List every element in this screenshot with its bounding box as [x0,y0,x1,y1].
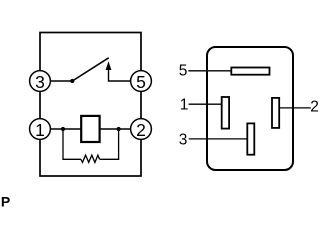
wire: coil to terminal 2 [99,128,131,130]
pin 5 slot [231,68,269,75]
relay coil L [81,116,99,142]
svg-text:5: 5 [136,72,146,92]
switch blade SW [72,58,108,81]
svg-text:5: 5 [179,63,188,80]
arrowhead on movable contact [106,61,112,70]
svg-text:1: 1 [180,97,189,114]
wire: terminal 1 to coil [50,128,82,130]
connector body outline [207,47,293,170]
wire: left node down [62,129,64,159]
relay case outline [40,33,141,177]
wire: terminal 3 to switch contact [50,80,72,82]
svg-text:2: 2 [310,99,319,116]
terminal 5 [131,71,152,93]
resistor R (parallel with coil) [81,155,100,162]
terminal 2 [131,119,152,141]
wire: resistor to bottom right [100,158,120,160]
svg-text:2: 2 [136,120,146,140]
svg-text:3: 3 [35,72,45,92]
wire: bottom left to resistor [62,158,81,160]
terminal 3 [30,71,51,93]
leader line: pin 5 [188,70,233,72]
pin 3 slot [247,123,254,154]
pin 2 slot [272,98,279,128]
junction: node right of coil [117,127,121,131]
leader line: pin 1 [189,103,224,105]
leader line: pin 3 [189,138,249,140]
junction: switch pivot dot [70,79,74,83]
wire: right node down [118,129,120,159]
svg-text:3: 3 [179,131,188,148]
terminal 1 [30,119,51,141]
junction: node left of coil [61,127,65,131]
pin 1 slot [222,97,229,129]
wire: arrow stem to terminal 5 [109,69,131,81]
leader line: pin 2 [278,107,311,109]
svg-text:P: P [1,193,10,209]
svg-text:1: 1 [35,120,45,140]
